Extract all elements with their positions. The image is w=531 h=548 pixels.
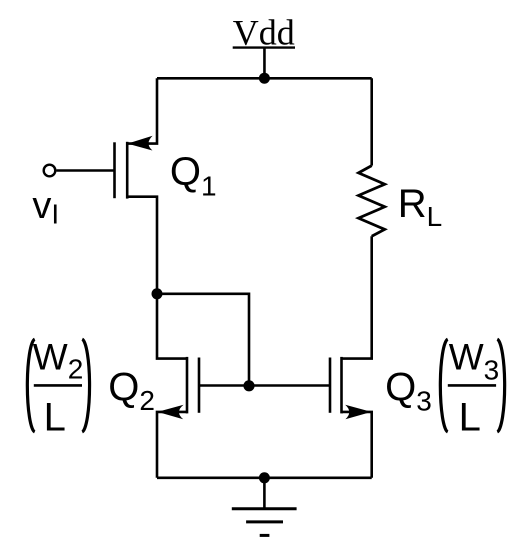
svg-text:Vdd: Vdd xyxy=(233,13,295,53)
svg-text:L: L xyxy=(44,396,66,440)
svg-text:L: L xyxy=(459,396,481,440)
